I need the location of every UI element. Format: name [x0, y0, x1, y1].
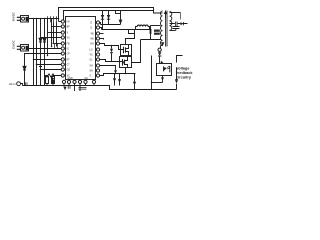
svg-text:SG: SG [85, 78, 89, 80]
svg-text:BP: BP [67, 26, 71, 28]
svg-text:HV: HV [67, 21, 71, 23]
svg-text:GND: GND [68, 78, 73, 80]
svg-text:VB: VB [91, 33, 95, 35]
svg-text:AC in: AC in [9, 82, 16, 86]
svg-text:circuitry: circuitry [176, 75, 192, 79]
svg-text:FB: FB [67, 43, 70, 45]
svg-text:Voltage: Voltage [176, 67, 189, 71]
svg-text:GH: GH [90, 65, 94, 67]
svg-text:X: X [67, 32, 69, 34]
svg-text:15VDC: 15VDC [12, 40, 16, 49]
svg-text:feedback: feedback [176, 71, 193, 75]
svg-text:HB: HB [91, 38, 95, 40]
svg-text:HO: HO [91, 43, 95, 45]
svg-text:SN: SN [90, 70, 94, 72]
svg-text:VS: VS [67, 37, 71, 39]
svg-text:GD: GD [67, 69, 71, 71]
svg-text:D: D [91, 22, 93, 24]
svg-text:D: D [91, 27, 93, 29]
svg-text:IS: IS [67, 48, 70, 50]
svg-text:90VDC: 90VDC [12, 12, 16, 21]
svg-text:RT: RT [67, 59, 71, 61]
svg-text:CT: CT [67, 64, 71, 66]
svg-text:LO: LO [90, 49, 93, 51]
svg-text:CP: CP [67, 53, 71, 55]
svg-text:G: G [90, 75, 92, 77]
svg-text:GL: GL [90, 59, 94, 61]
svg-text:VC: VC [90, 54, 94, 56]
